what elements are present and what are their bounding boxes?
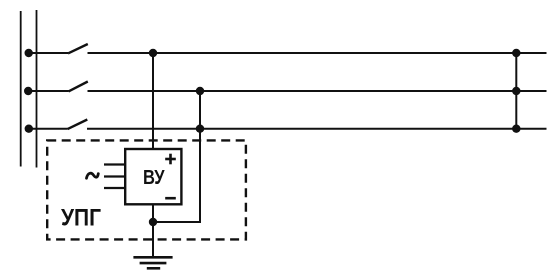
svg-text:УПГ: УПГ	[61, 205, 101, 232]
node phase B tap	[24, 87, 32, 95]
svg-text:ВУ: ВУ	[143, 167, 165, 189]
node phase B drop	[196, 87, 204, 95]
busbar right line	[36, 10, 38, 168]
wire phase B drop	[153, 91, 200, 222]
wire right tie	[515, 53, 517, 129]
minus terminal label	[165, 197, 176, 200]
node right phase A	[512, 49, 520, 57]
ac input lines	[104, 165, 125, 189]
node phase C tap	[25, 125, 33, 133]
node minus junction	[149, 218, 157, 226]
wire phase C left segment	[25, 128, 68, 130]
plus terminal label	[165, 154, 176, 165]
wire phase A main	[88, 52, 547, 54]
busbar left line	[20, 11, 22, 167]
node phase C drop	[196, 125, 204, 133]
rectifier VU box	[125, 149, 181, 204]
ac tilde symbol	[87, 173, 99, 178]
node phase A tap	[25, 49, 33, 57]
switch QS2 blade	[69, 82, 88, 92]
node right phase C	[512, 125, 520, 133]
wire phase C main	[87, 128, 547, 130]
switch QS1 blade	[68, 44, 88, 53]
wire VU plus to phase A	[152, 53, 154, 149]
wire VU minus to ground	[152, 204, 154, 258]
switch QS3 blade	[68, 120, 88, 130]
dashed enclosure UPG	[47, 140, 246, 239]
node right phase B	[512, 87, 520, 95]
wire phase B main	[88, 90, 547, 92]
node phase A to VU	[149, 49, 157, 57]
wire phase B left segment	[25, 90, 69, 92]
ground	[133, 257, 172, 268]
wire phase A left segment	[25, 52, 68, 54]
